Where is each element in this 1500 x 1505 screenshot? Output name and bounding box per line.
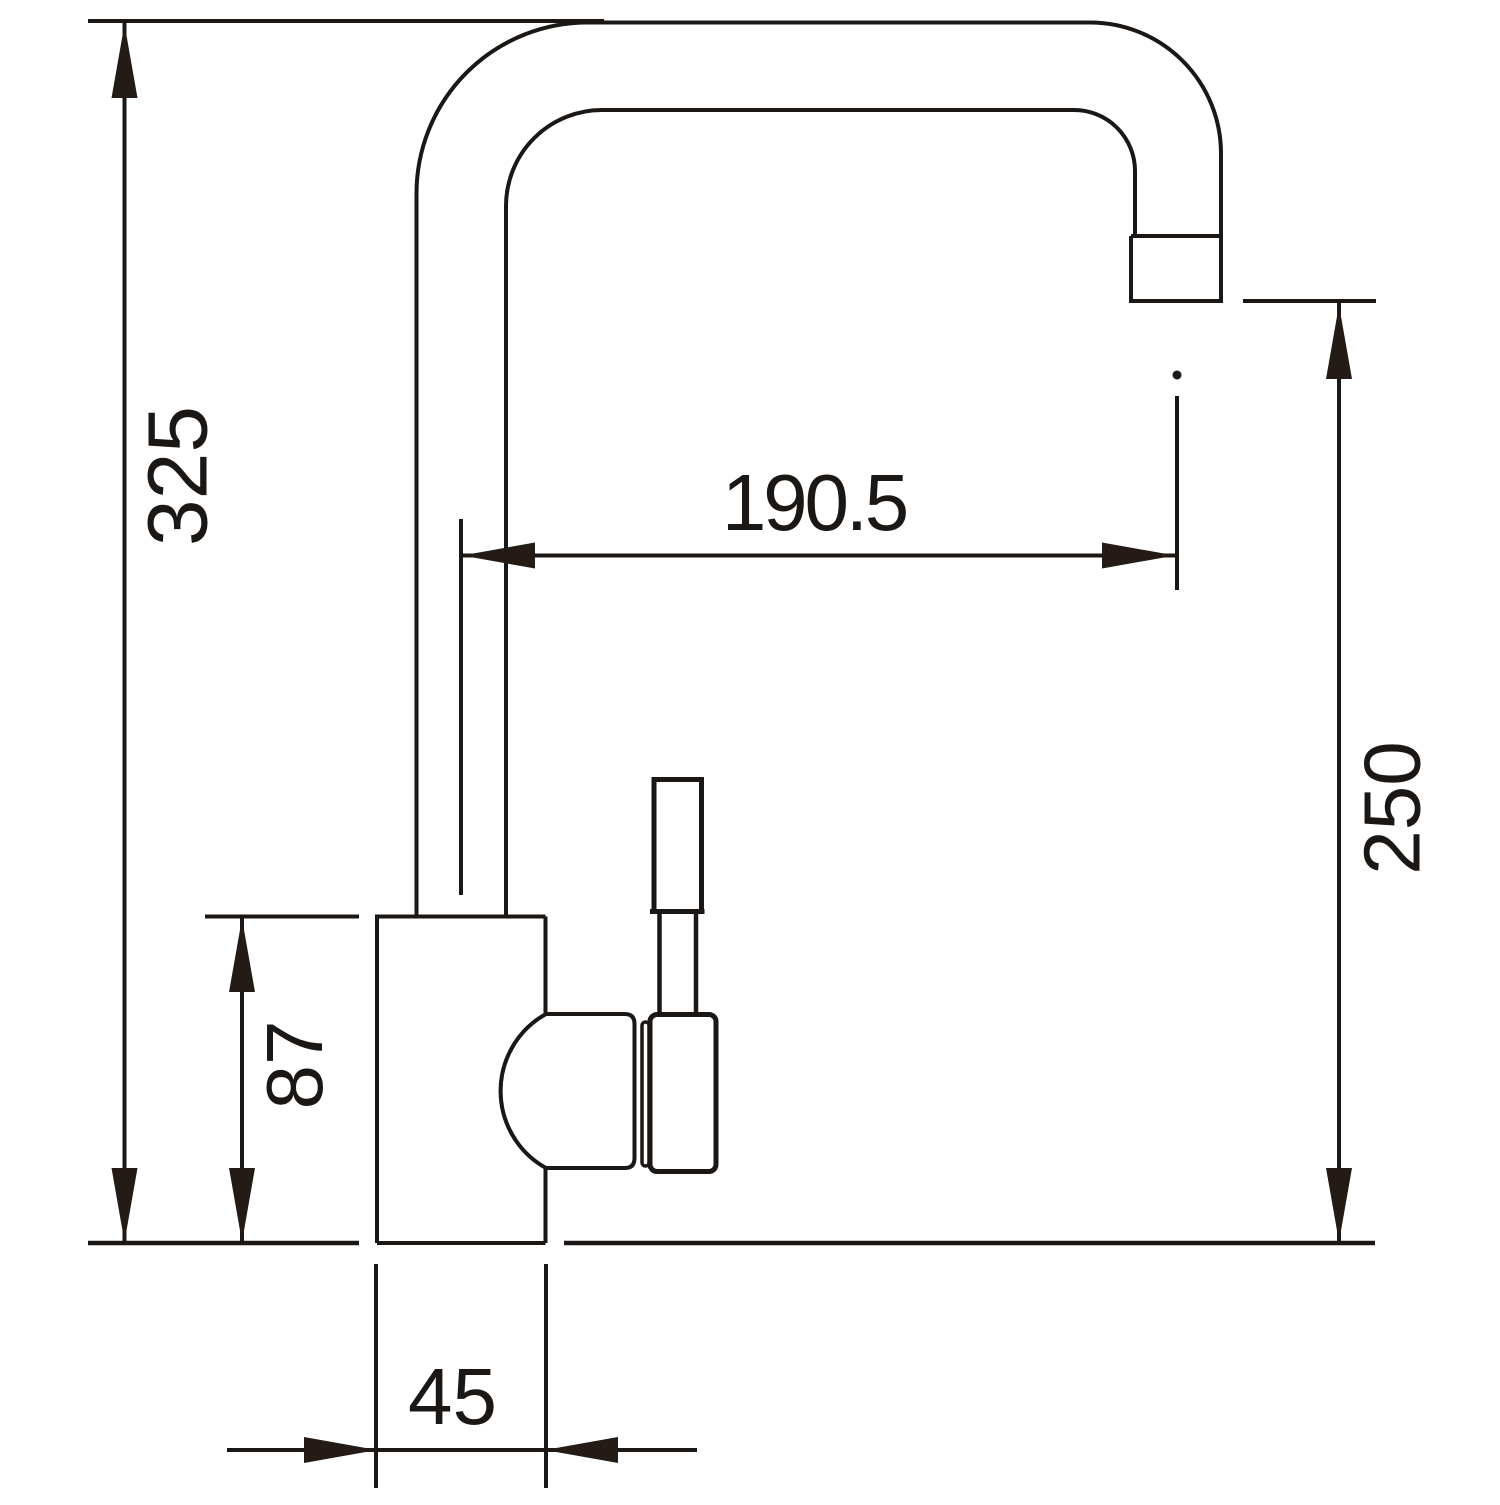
handle base block <box>650 1015 716 1172</box>
spout outer wall (left vertical, top arc, top run, right arc, right vertical) <box>417 23 1222 917</box>
wire: extension line below body left (ref for 45) <box>374 1264 378 1488</box>
faucet body top edge <box>375 915 546 919</box>
svg-text:87: 87 <box>250 1021 339 1110</box>
collar between dome and handle base <box>642 1022 649 1166</box>
arrow up (250 top) <box>1326 305 1352 379</box>
arrow up (87 top) <box>229 919 255 993</box>
wire: extension line at body top left (ref for 87) <box>205 915 359 919</box>
spout tip outlet box <box>1131 236 1223 301</box>
arrow right (190.5) <box>1102 543 1175 569</box>
dimension 250 line <box>1337 303 1341 1242</box>
arrow down (87 bottom) <box>229 1168 255 1242</box>
wire: extension line below body right (ref for 45) <box>544 1264 548 1488</box>
arrow left (190.5) <box>462 543 535 569</box>
faucet body bottom edge <box>377 1241 546 1245</box>
arrow down (325 bottom) <box>112 1168 138 1242</box>
dimension 45 line right part <box>546 1448 697 1452</box>
dimension 45 line middle part <box>376 1448 546 1452</box>
handle knob <box>654 780 702 912</box>
dimension 45 line left part <box>227 1448 376 1452</box>
dimension 325 line <box>123 23 127 1242</box>
faucet body right edge upper <box>544 917 548 1014</box>
handle knob bottom flange line <box>650 909 705 914</box>
arrow pointing left (45 right) <box>545 1437 618 1463</box>
wire: extension line right of spout tip (ref for 250) <box>1243 299 1376 303</box>
dimension 190.5 line <box>461 554 1176 558</box>
arrow pointing right (45 left) <box>304 1437 377 1463</box>
counter baseline left segment <box>88 1241 359 1246</box>
faucet body right edge lower <box>544 1168 548 1243</box>
arrow up (325 top) <box>112 24 138 98</box>
arrow down (250 bottom) <box>1326 1168 1352 1242</box>
spout inner wall <box>506 110 1135 916</box>
dimension 190.5 : right tick line <box>1175 396 1179 590</box>
svg-text:250: 250 <box>1348 741 1437 874</box>
dimension 190.5 : left tick (tube centerline) <box>459 519 463 895</box>
valve dome (handle joint) <box>501 1014 635 1168</box>
svg-text:45: 45 <box>408 1352 497 1441</box>
counter baseline right segment <box>564 1241 1375 1246</box>
svg-text:190.5: 190.5 <box>722 458 907 547</box>
handle neck <box>660 911 697 1015</box>
svg-text:325: 325 <box>131 406 225 546</box>
dimension 190.5 : right tick dot <box>1173 371 1182 380</box>
wire: top extension line at spout apex (ref for 325) <box>88 19 604 23</box>
faucet body left edge <box>375 917 379 1244</box>
dimension 87 line <box>240 918 244 1242</box>
